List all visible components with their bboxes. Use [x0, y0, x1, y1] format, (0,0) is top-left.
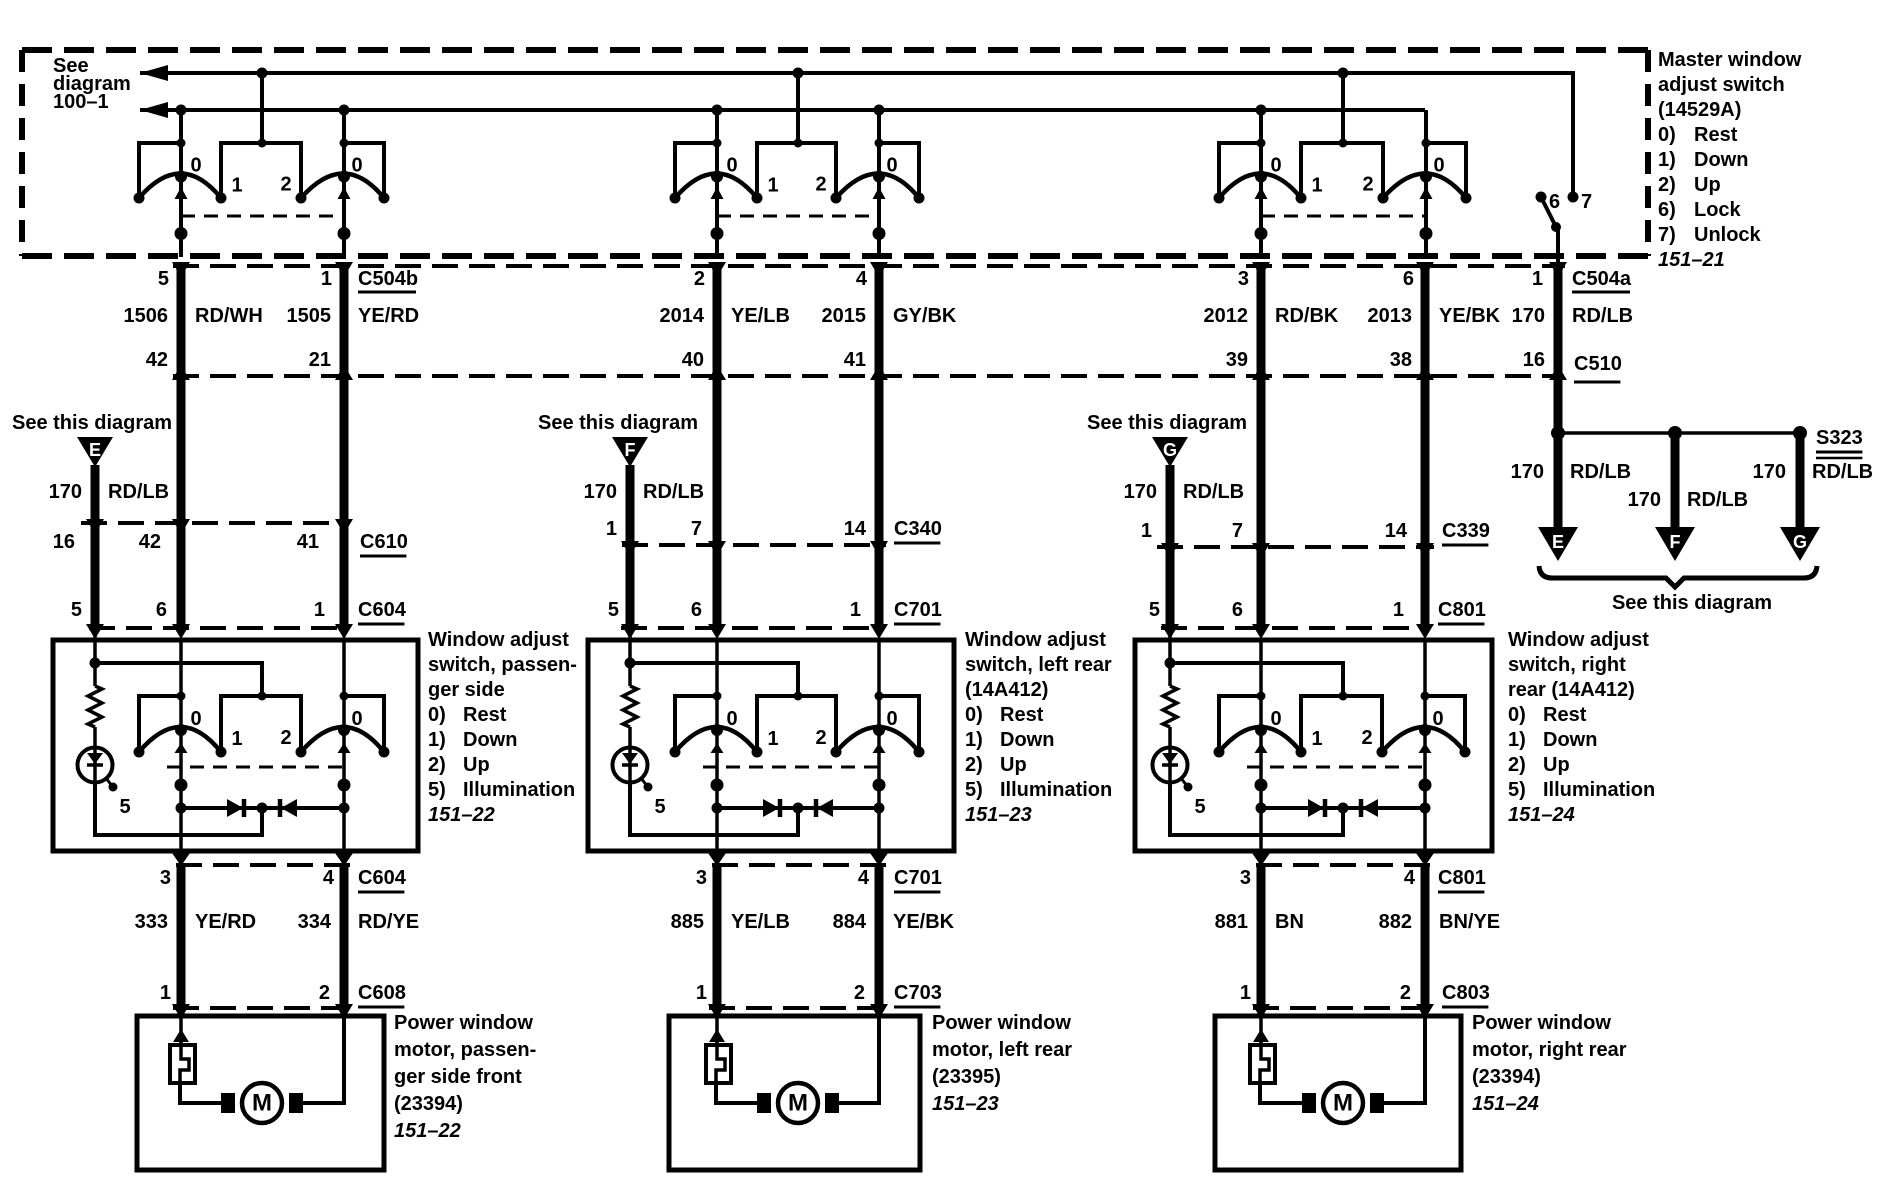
- off-page arrow E (outgoing): [1538, 527, 1578, 561]
- svg-text:334: 334: [298, 911, 332, 933]
- label: power window motor legend (right rear): [1472, 1012, 1627, 1115]
- svg-text:7: 7: [1232, 520, 1243, 542]
- diode D2 (passenger side switch): [280, 799, 297, 817]
- pin numbers C801: [1149, 599, 1404, 621]
- switch rest-contact bracket (left rocker, 0): [1219, 143, 1261, 198]
- diode D1 (right rear switch): [1308, 799, 1325, 817]
- svg-text:Window adjust: Window adjust: [965, 629, 1106, 651]
- svg-text:RD/LB: RD/LB: [1687, 489, 1748, 511]
- wire to off-page arrow F: [1671, 433, 1680, 529]
- wires from C504 connectors down to C510: [181, 266, 1558, 376]
- svg-text:881: 881: [1215, 911, 1248, 933]
- svg-text:Window adjust: Window adjust: [1508, 629, 1649, 651]
- junction on upper rail: [257, 68, 268, 79]
- svg-text:100–1: 100–1: [53, 91, 109, 113]
- svg-text:See this diagram: See this diagram: [12, 412, 172, 434]
- pin numbers C803: [1240, 982, 1411, 1004]
- svg-text:170: 170: [1511, 461, 1544, 483]
- diode row wire: [1261, 806, 1425, 810]
- svg-text:GY/BK: GY/BK: [893, 305, 957, 327]
- master switch rocker pair (left rear window): [670, 68, 925, 258]
- wire to off-page arrow G: [1796, 433, 1805, 529]
- right rocker wiper arrow: [873, 743, 886, 753]
- svg-text:2): 2): [965, 754, 983, 776]
- svg-text:151–24: 151–24: [1508, 804, 1575, 826]
- svg-text:RD/LB: RD/LB: [643, 481, 704, 503]
- svg-text:1: 1: [314, 599, 325, 621]
- left rocker wiper arc: [1219, 727, 1301, 752]
- svg-text:1: 1: [696, 982, 707, 1004]
- junction dots above connector: [711, 227, 724, 240]
- window adjust switch box (left rear): [588, 640, 954, 851]
- master window adjust switch boundary (dashed box): [22, 50, 1648, 256]
- wire from lower rail through left rocker: [715, 110, 719, 257]
- svg-text:5: 5: [654, 796, 665, 818]
- svg-text:4: 4: [856, 268, 868, 290]
- svg-text:1): 1): [1658, 149, 1676, 171]
- svg-text:5: 5: [71, 599, 82, 621]
- circuit breaker (motor, right rear): [1250, 1045, 1275, 1083]
- motor M (right rear): [1302, 1083, 1384, 1123]
- svg-text:39: 39: [1226, 349, 1248, 371]
- svg-text:42: 42: [146, 349, 168, 371]
- brace: see this diagram group: [1539, 566, 1817, 587]
- connector C701 (dashed line): [621, 626, 882, 630]
- svg-text:Rest: Rest: [463, 704, 507, 726]
- left rocker wiper arrow: [711, 743, 724, 753]
- svg-text:1: 1: [231, 728, 242, 750]
- right rocker pivot: [338, 724, 350, 736]
- svg-text:0: 0: [1270, 155, 1281, 177]
- wire G down to connector: [1166, 465, 1175, 547]
- svg-text:2: 2: [280, 727, 291, 749]
- T-bar to contacts 1 and 2: [221, 696, 301, 752]
- T-bar to contacts 1 and 2: [1301, 696, 1382, 752]
- label 170 RD/LB: [1124, 481, 1244, 503]
- svg-text:5: 5: [1149, 599, 1160, 621]
- svg-text:38: 38: [1390, 349, 1412, 371]
- mechanical linkage (dashed): [1247, 766, 1425, 769]
- switch rest-contact bracket (left rocker, 0): [675, 696, 717, 752]
- main wire 2 through switch: [342, 640, 346, 851]
- svg-text:G: G: [1163, 440, 1177, 460]
- svg-text:1: 1: [850, 599, 861, 621]
- svg-text:adjust switch: adjust switch: [1658, 74, 1785, 96]
- svg-text:Up: Up: [1543, 754, 1570, 776]
- svg-text:RD/YE: RD/YE: [358, 911, 419, 933]
- left rocker wiper arrow: [711, 187, 724, 199]
- svg-text:5): 5): [428, 779, 446, 801]
- svg-text:4: 4: [858, 867, 870, 889]
- svg-text:BN/YE: BN/YE: [1439, 911, 1500, 933]
- pin numbers C608: [160, 982, 330, 1004]
- svg-text:C604: C604: [358, 867, 407, 889]
- svg-text:333: 333: [135, 911, 168, 933]
- svg-text:1: 1: [160, 982, 171, 1004]
- contact dots: [670, 747, 681, 758]
- power window motor box (right rear): [1215, 1016, 1461, 1170]
- svg-text:40: 40: [682, 349, 704, 371]
- T-bar to contacts 1 and 2: [757, 696, 836, 752]
- svg-text:0: 0: [351, 155, 362, 177]
- right rocker wiper arc: [1383, 174, 1466, 199]
- svg-text:(23394): (23394): [1472, 1066, 1541, 1088]
- connector C803 (dashed line): [1253, 1006, 1430, 1010]
- svg-text:Down: Down: [1543, 729, 1597, 751]
- svg-text:2013: 2013: [1368, 305, 1413, 327]
- svg-text:0: 0: [1270, 708, 1281, 730]
- connector pin arrows at C610: [86, 519, 353, 534]
- svg-text:1: 1: [1240, 982, 1251, 1004]
- svg-text:3: 3: [160, 867, 171, 889]
- left rocker pivot: [711, 171, 723, 183]
- svg-text:G: G: [1793, 532, 1807, 552]
- svg-text:C608: C608: [358, 982, 406, 1004]
- wire: lower feed rail (to diagram 100-1): [140, 102, 1425, 118]
- connector C340 (dashed line): [622, 543, 886, 547]
- right rocker pivot: [1419, 724, 1431, 736]
- main wire 2 through switch: [1423, 640, 1427, 851]
- wire feed to contacts 1 and 2: [1341, 73, 1345, 143]
- connector C510 (dashed line): [173, 374, 1558, 378]
- svg-text:6: 6: [691, 599, 702, 621]
- svg-text:C701: C701: [894, 599, 942, 621]
- label 170 RD/LB: [1511, 461, 1631, 483]
- label C604: [358, 599, 407, 624]
- pin numbers C604 lower: [160, 867, 335, 889]
- switch rest-contact bracket (left rocker, 0): [139, 696, 181, 752]
- svg-text:Up: Up: [463, 754, 490, 776]
- junction dots above connector: [175, 227, 188, 240]
- wire pin 2 stub into box: [342, 1008, 346, 1016]
- junction on upper rail: [793, 68, 804, 79]
- left rocker wiper arc: [1219, 174, 1301, 199]
- resistor (illumination, passenger side): [88, 686, 102, 727]
- connector C339 (dashed line): [1157, 545, 1434, 549]
- power window motor box (passenger side): [137, 1016, 384, 1170]
- wire from lower rail through right rocker: [877, 110, 881, 257]
- label C510: [1574, 353, 1622, 382]
- label C608: [358, 982, 406, 1007]
- wire from lower rail through right rocker: [1424, 110, 1428, 257]
- contact dots: [670, 193, 681, 204]
- junction dots below rockers: [1255, 779, 1432, 792]
- svg-text:1: 1: [1311, 175, 1322, 197]
- svg-text:170: 170: [1628, 489, 1661, 511]
- svg-text:2: 2: [1361, 727, 1372, 749]
- svg-text:Up: Up: [1694, 174, 1721, 196]
- svg-text:Lock: Lock: [1694, 199, 1742, 221]
- wire LED to diode return: [630, 782, 798, 835]
- svg-text:0: 0: [351, 708, 362, 730]
- svg-text:884: 884: [833, 911, 867, 933]
- svg-text:3: 3: [696, 867, 707, 889]
- label C701 lower: [894, 867, 942, 892]
- left rocker pivot: [175, 171, 187, 183]
- wire breaker to motor: [180, 1083, 234, 1103]
- pin numbers C339: [1141, 520, 1408, 542]
- svg-text:170: 170: [584, 481, 617, 503]
- left rocker pivot: [175, 724, 187, 736]
- right rocker pivot: [873, 171, 885, 183]
- svg-text:6: 6: [1549, 191, 1560, 213]
- right rocker wiper arc: [301, 727, 384, 752]
- svg-text:5): 5): [965, 779, 983, 801]
- connector C801 (dashed line): [1161, 626, 1428, 630]
- right rocker wiper arc: [836, 727, 919, 752]
- wire LED to diode return: [1170, 782, 1343, 835]
- label: power window motor legend (left rear): [932, 1012, 1072, 1115]
- svg-text:14: 14: [1385, 520, 1408, 542]
- wire from lower rail through left rocker: [179, 110, 183, 257]
- motor M (left rear): [757, 1083, 839, 1123]
- wire into breaker: [709, 1008, 725, 1045]
- left rocker wiper arrow: [175, 187, 188, 199]
- svg-text:Master window: Master window: [1658, 49, 1802, 71]
- svg-text:M: M: [252, 1090, 272, 1117]
- svg-text:RD/LB: RD/LB: [1812, 461, 1873, 483]
- motor M (passenger side): [221, 1083, 303, 1123]
- label 170 RD/LB: [1628, 489, 1748, 511]
- connector C504b / C504a (dashed line): [173, 264, 1565, 268]
- wire from lock switch down: [1556, 227, 1560, 262]
- svg-text:170: 170: [1124, 481, 1157, 503]
- right rocker pivot: [1420, 171, 1432, 183]
- feed branch to rocker contacts: [630, 663, 798, 696]
- svg-text:(23394): (23394): [394, 1093, 463, 1115]
- wire F down to connector: [626, 465, 635, 545]
- left rocker wiper arc: [675, 727, 757, 752]
- svg-text:2: 2: [1400, 982, 1411, 1004]
- svg-text:14: 14: [844, 518, 867, 540]
- wires from C340 to C701: [626, 545, 635, 628]
- mechanical linkage (dashed): [167, 766, 344, 769]
- svg-text:Up: Up: [1000, 754, 1027, 776]
- svg-text:1: 1: [606, 518, 617, 540]
- svg-text:16: 16: [53, 531, 75, 553]
- svg-text:Illumination: Illumination: [1543, 779, 1655, 801]
- svg-text:1): 1): [1508, 729, 1526, 751]
- svg-text:2: 2: [815, 727, 826, 749]
- svg-text:Down: Down: [463, 729, 517, 751]
- svg-text:5): 5): [1508, 779, 1526, 801]
- svg-text:151–23: 151–23: [932, 1093, 999, 1115]
- label S323: [1816, 427, 1863, 458]
- illumination feed wire (pin 5): [625, 628, 799, 696]
- connector pin arrows at C608: [172, 1004, 353, 1019]
- svg-text:151–22: 151–22: [428, 804, 495, 826]
- left rocker pivot: [1255, 171, 1267, 183]
- pin numbers C610: [53, 531, 319, 553]
- svg-text:2012: 2012: [1204, 305, 1249, 327]
- right rocker wiper arrow: [338, 187, 351, 199]
- svg-text:5: 5: [1194, 796, 1205, 818]
- svg-text:YE/LB: YE/LB: [731, 305, 790, 327]
- svg-text:2): 2): [428, 754, 446, 776]
- main wire 1 through switch: [715, 640, 719, 851]
- svg-text:C604: C604: [358, 599, 407, 621]
- svg-text:motor, right rear: motor, right rear: [1472, 1039, 1627, 1061]
- left rocker pivot: [711, 724, 723, 736]
- connector C608 (dashed line): [173, 1006, 348, 1010]
- svg-text:RD/WH: RD/WH: [195, 305, 263, 327]
- off-page arrow G (outgoing): [1780, 527, 1820, 561]
- illumination LED (right rear): [1153, 748, 1193, 792]
- svg-text:16: 16: [1523, 349, 1545, 371]
- diode D2 (left rear switch): [816, 799, 833, 817]
- left rocker wiper arrow: [1255, 187, 1268, 199]
- svg-text:Unlock: Unlock: [1694, 224, 1762, 246]
- svg-text:4: 4: [323, 867, 335, 889]
- contact 7: [1568, 192, 1579, 203]
- svg-text:1: 1: [1393, 599, 1404, 621]
- svg-text:5: 5: [119, 796, 130, 818]
- wire to off-page arrow E: [1554, 433, 1563, 529]
- diode D2 (right rear switch): [1361, 799, 1378, 817]
- svg-text:0: 0: [726, 155, 737, 177]
- svg-text:6: 6: [156, 599, 167, 621]
- contact dots: [1214, 747, 1225, 758]
- label: power window motor legend (passenger side): [394, 1012, 536, 1142]
- wire resistor to LED: [628, 727, 632, 748]
- switch rest-contact bracket (right rocker, 0): [1425, 696, 1465, 752]
- right rocker wiper arc: [1382, 727, 1465, 752]
- svg-text:0): 0): [1508, 704, 1526, 726]
- svg-text:2): 2): [1508, 754, 1526, 776]
- wire breaker to motor: [716, 1083, 770, 1103]
- wire pin 2 stub into box: [1423, 1008, 1427, 1016]
- svg-text:1: 1: [1311, 728, 1322, 750]
- mechanical linkage (dashed): [703, 766, 879, 769]
- master switch rocker pair (passenger side window): [134, 68, 390, 258]
- svg-text:BN: BN: [1275, 911, 1304, 933]
- svg-text:21: 21: [309, 349, 331, 371]
- pin numbers C701 lower: [696, 867, 870, 889]
- svg-text:1: 1: [1141, 520, 1152, 542]
- T-bar to contacts 1 and 2: [1301, 143, 1383, 198]
- svg-text:170: 170: [1753, 461, 1786, 483]
- svg-text:2: 2: [1362, 174, 1373, 196]
- svg-text:rear (14A412): rear (14A412): [1508, 679, 1635, 701]
- label C801: [1438, 599, 1486, 624]
- svg-text:(14529A): (14529A): [1658, 99, 1741, 121]
- contact dots: [134, 747, 145, 758]
- svg-text:2: 2: [319, 982, 330, 1004]
- svg-text:(14A412): (14A412): [965, 679, 1048, 701]
- svg-text:170: 170: [1512, 305, 1545, 327]
- connector pin arrows at C339: [1161, 543, 1434, 558]
- connector C801 lower (dashed line): [1256, 863, 1432, 867]
- connector C604 lower (dashed line): [176, 863, 350, 867]
- svg-text:0: 0: [1432, 708, 1443, 730]
- window adjust switch box (passenger side): [53, 640, 418, 851]
- label C701: [894, 599, 942, 624]
- svg-text:YE/LB: YE/LB: [731, 911, 790, 933]
- svg-text:885: 885: [671, 911, 704, 933]
- off-page arrow E (incoming): [77, 437, 113, 467]
- svg-text:7): 7): [1658, 224, 1676, 246]
- illumination LED (passenger side): [78, 748, 118, 792]
- svg-text:Rest: Rest: [1000, 704, 1044, 726]
- svg-text:motor, left rear: motor, left rear: [932, 1039, 1072, 1061]
- svg-text:3: 3: [1240, 867, 1251, 889]
- diode row wire: [181, 806, 344, 810]
- feed branch to rocker contacts: [95, 663, 262, 696]
- wire breaker to motor: [1260, 1083, 1315, 1103]
- wire: upper feed rail (to diagram 100-1): [140, 65, 1573, 192]
- svg-text:See this diagram: See this diagram: [1612, 592, 1772, 614]
- switch rest-contact bracket (left rocker, 0): [1219, 696, 1261, 752]
- svg-text:2: 2: [694, 268, 705, 290]
- svg-text:C504a: C504a: [1572, 268, 1632, 290]
- contact dots: [1214, 193, 1225, 204]
- left rocker wiper arc: [139, 727, 221, 752]
- left rocker pivot: [1255, 724, 1267, 736]
- svg-text:151–22: 151–22: [394, 1120, 461, 1142]
- connector C610 (dashed line): [81, 521, 346, 525]
- pin numbers C340: [606, 518, 867, 540]
- svg-text:Down: Down: [1000, 729, 1054, 751]
- left rocker wiper arrow: [1255, 743, 1268, 753]
- label C703: [894, 982, 942, 1007]
- label C504a: [1572, 268, 1632, 292]
- label C801 lower: [1438, 867, 1486, 892]
- svg-text:C703: C703: [894, 982, 942, 1004]
- label C610: [360, 531, 408, 556]
- svg-text:0: 0: [190, 155, 201, 177]
- master lock/unlock switch: [1536, 191, 1593, 262]
- wires exiting switch box with arrows: [708, 853, 888, 866]
- svg-text:YE/RD: YE/RD: [358, 305, 419, 327]
- connector pin arrows at C803: [1252, 1004, 1434, 1019]
- svg-text:0: 0: [886, 708, 897, 730]
- switch rest-contact bracket (left rocker, 0): [675, 143, 717, 198]
- svg-text:0): 0): [965, 704, 983, 726]
- right rocker wiper arrow: [338, 743, 351, 753]
- mechanical linkage (dashed): [1261, 215, 1426, 218]
- feed branch to rocker contacts: [1170, 663, 1343, 696]
- svg-text:C510: C510: [1574, 353, 1622, 375]
- label 170 RD/LB: [1753, 461, 1873, 483]
- right rocker wiper arrow: [873, 187, 886, 199]
- svg-text:switch, passen-: switch, passen-: [428, 654, 577, 676]
- svg-text:RD/LB: RD/LB: [108, 481, 169, 503]
- svg-text:6): 6): [1658, 199, 1676, 221]
- label C339: [1442, 520, 1490, 545]
- wire feed to contacts 1 and 2: [796, 73, 800, 143]
- contact 6: [1536, 192, 1547, 203]
- illumination feed wire (pin 5): [90, 628, 263, 696]
- off-page arrow G (incoming): [1152, 437, 1188, 467]
- svg-text:6: 6: [1232, 599, 1243, 621]
- svg-text:2: 2: [815, 174, 826, 196]
- right rocker pivot: [338, 171, 350, 183]
- svg-text:151–21: 151–21: [1658, 249, 1725, 271]
- resistor (illumination, left rear): [623, 686, 637, 727]
- svg-text:7: 7: [691, 518, 702, 540]
- svg-text:1506: 1506: [124, 305, 169, 327]
- wires from C801 down to motor connector: [1261, 865, 1425, 1008]
- svg-text:F: F: [625, 440, 636, 460]
- svg-text:41: 41: [297, 531, 319, 553]
- wire motor to pin 2: [290, 1016, 344, 1103]
- pin numbers C604: [71, 599, 325, 621]
- svg-text:5: 5: [158, 268, 169, 290]
- wires from C701 down to motor connector: [717, 865, 879, 1008]
- connector pin arrows at C701: [621, 624, 888, 639]
- wires exiting switch box with arrows: [1252, 853, 1434, 866]
- svg-text:Window adjust: Window adjust: [428, 629, 569, 651]
